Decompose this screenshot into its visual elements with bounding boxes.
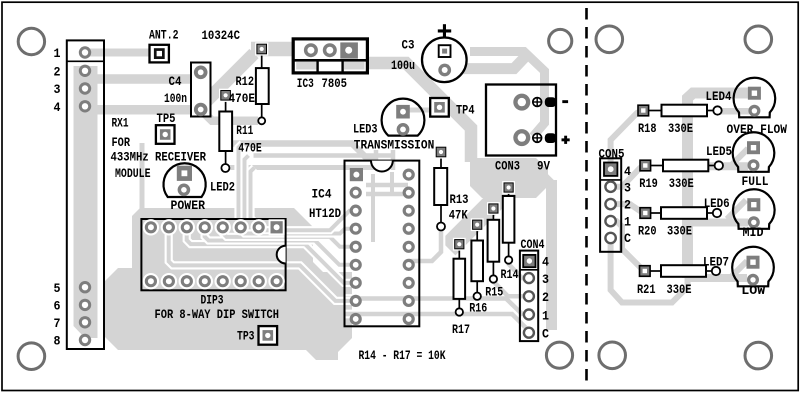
wire: CON5 common to trunk — [611, 238, 688, 303]
label 330E R21 — [667, 282, 692, 297]
label R15 — [485, 284, 503, 299]
svg-text:C4: C4 — [169, 74, 182, 89]
label R12 value 470E — [229, 91, 256, 106]
svg-text:4: 4 — [624, 164, 631, 179]
wire: LED5 anode stub — [730, 149, 748, 167]
label CON3 — [495, 158, 520, 173]
wire: trace left of DIP3 — [140, 143, 145, 280]
wire: LED6 anode stub — [727, 200, 746, 219]
label R21 — [637, 282, 656, 297]
label 10324C — [202, 28, 241, 43]
label CON4 — [521, 237, 545, 252]
CON3 minus mark — [562, 100, 568, 103]
label 100n — [164, 91, 187, 106]
label IC3 — [297, 76, 314, 91]
svg-text:DIP3: DIP3 — [201, 293, 224, 308]
wire: vertical bus inside CON1 — [74, 66, 98, 338]
IC3 7805 regulator — [293, 39, 367, 73]
wire: band link to pour — [538, 172, 553, 187]
svg-text:2: 2 — [624, 198, 631, 213]
wire: trunk to LED7 pad — [688, 274, 748, 282]
label R18 — [638, 121, 657, 136]
wire: vertical band right of CON4 — [546, 180, 557, 330]
wire: IC4 inner traces — [366, 172, 408, 242]
label FULL — [742, 174, 769, 189]
wire: trunk to LED6 pad — [688, 219, 749, 227]
resistor R17 — [453, 238, 466, 316]
resistor R21 — [640, 265, 721, 277]
CON3 plus mark — [562, 136, 570, 144]
svg-text:7805: 7805 — [322, 76, 348, 91]
svg-text:R16: R16 — [469, 300, 487, 315]
svg-text:C: C — [624, 231, 631, 246]
svg-text:POWER: POWER — [171, 198, 206, 213]
label C4 — [169, 74, 182, 89]
node CON4 pin labels — [542, 255, 549, 342]
label 330E R19 — [669, 176, 694, 191]
resistor R11 — [219, 89, 232, 172]
label LED4 — [706, 89, 732, 104]
svg-text:3: 3 — [54, 82, 61, 97]
resistor R19 — [640, 160, 723, 172]
svg-text:FULL: FULL — [742, 174, 769, 189]
svg-text:4: 4 — [542, 255, 549, 270]
label R20 — [638, 224, 657, 239]
svg-text:TP4: TP4 — [456, 103, 475, 118]
svg-text:100u: 100u — [391, 58, 415, 73]
svg-text:LED2: LED2 — [210, 180, 235, 195]
wire: R11 pad trace to IC4 — [225, 165, 376, 170]
label R13 — [450, 192, 469, 207]
wire: C3 pad link — [445, 56, 526, 69]
label TP3 — [237, 328, 255, 343]
svg-text:330E: 330E — [667, 282, 692, 297]
svg-text:MID: MID — [743, 225, 764, 240]
svg-text:330E: 330E — [668, 121, 693, 136]
resistor R15 — [487, 202, 500, 283]
label MID — [743, 225, 764, 240]
LED D2 (power) — [163, 163, 205, 197]
DIP3 socket for DIP switch — [141, 219, 285, 290]
wire: pin4 trace to C4 bottom pad — [85, 106, 199, 109]
wire: trace to CON4 pin4 — [524, 259, 536, 264]
label RX1 — [112, 116, 129, 131]
svg-text:TRANSMISSION: TRANSMISSION — [354, 138, 435, 153]
label HT12D — [309, 206, 341, 221]
resistor R12 — [255, 42, 269, 124]
svg-text:R17: R17 — [452, 322, 470, 337]
label OVER FLOW — [727, 122, 788, 137]
wire: LED common trunk — [688, 93, 750, 278]
wire: LED7 anode stub — [730, 261, 747, 278]
svg-text:LED5: LED5 — [706, 144, 732, 159]
wire: IC4 notch vertical 2 — [391, 150, 396, 170]
svg-text:10324C: 10324C — [202, 28, 241, 43]
capacitor C4 — [191, 63, 211, 117]
svg-text:7: 7 — [54, 316, 61, 331]
wire: C4 to R12 bottom pad — [201, 110, 258, 121]
svg-text:R13: R13 — [450, 192, 469, 207]
svg-text:IC3: IC3 — [297, 76, 314, 91]
svg-text:IC4: IC4 — [312, 187, 332, 202]
svg-text:OVER FLOW: OVER FLOW — [727, 122, 788, 137]
svg-text:4: 4 — [54, 100, 61, 115]
label R16 — [469, 300, 487, 315]
LED5 — [733, 132, 775, 172]
connector CON4 — [520, 251, 538, 342]
connector CON3 9V battery — [486, 85, 556, 156]
connector CON5 — [600, 158, 621, 252]
svg-text:LOW: LOW — [741, 283, 765, 298]
C3 polarity plus mark — [438, 24, 451, 37]
label R12 — [236, 74, 255, 89]
label IC4 — [312, 187, 332, 202]
wire: LED3 to TP4 link — [404, 108, 430, 113]
svg-text:LED7: LED7 — [703, 255, 729, 270]
wire: wide feed to resistor bank — [448, 186, 510, 248]
svg-text:470E: 470E — [229, 91, 256, 106]
label 100u — [391, 58, 415, 73]
wire: upper bundle trace 2 — [254, 153, 394, 158]
svg-text:100n: 100n — [164, 91, 187, 106]
svg-text:LED6: LED6 — [704, 196, 730, 211]
svg-text:R14 - R17 = 10K: R14 - R17 = 10K — [359, 348, 446, 363]
board separator dashed line — [585, 8, 588, 386]
label TP4 — [456, 103, 475, 118]
svg-text:2: 2 — [542, 290, 549, 305]
resistor R13 — [434, 145, 447, 230]
svg-text:470E: 470E — [238, 140, 262, 155]
test point TP5 — [156, 125, 175, 144]
wire: pin1 trace to ANT.2 — [85, 49, 159, 57]
svg-text:R19: R19 — [639, 176, 658, 191]
svg-text:3: 3 — [624, 181, 631, 196]
connector CON1 8-pin receiver header — [67, 40, 104, 349]
label R13 value 47K — [449, 208, 468, 223]
svg-text:R21: R21 — [637, 282, 656, 297]
label LED3 — [353, 121, 378, 136]
LED4 — [734, 78, 776, 118]
svg-text:R11: R11 — [236, 123, 253, 138]
wire: pin2 trace to C4 top pad — [85, 71, 195, 79]
svg-text:R12: R12 — [236, 74, 255, 89]
wire: riser trace 3 — [251, 168, 255, 220]
wire: big ground pour bottom-left — [104, 208, 352, 360]
test point TP3 — [259, 326, 278, 345]
wire: R13 bottom trace — [409, 227, 441, 261]
label DIP3 — [201, 293, 224, 308]
label R14 — [501, 267, 519, 282]
label LED2 — [210, 180, 235, 195]
svg-text:330E: 330E — [667, 224, 692, 239]
wire: CON5 pin1 to R21 — [611, 221, 645, 270]
svg-text:R15: R15 — [485, 284, 503, 299]
label R11 — [236, 123, 253, 138]
svg-text:RX1: RX1 — [112, 116, 129, 131]
label FOR 8-WAY DIP SWITCH — [155, 307, 280, 322]
resistor R14 — [502, 181, 515, 264]
wire: DIP3 to IC4 fan traces — [286, 211, 356, 301]
wire: CON5 pin4 to R18 — [611, 111, 642, 167]
label R14 - R17 = 10K — [359, 348, 446, 363]
wire: CON5 pin3 to R19 — [611, 166, 646, 187]
label LOW — [741, 283, 765, 298]
label POWER — [171, 198, 206, 213]
svg-text:HT12D: HT12D — [309, 206, 341, 221]
label LED6 — [704, 196, 730, 211]
svg-text:330E: 330E — [669, 176, 694, 191]
svg-text:FOR 8-WAY DIP SWITCH: FOR 8-WAY DIP SWITCH — [155, 307, 280, 322]
wire: R14 pad to CON4 pin3 — [509, 260, 529, 278]
wire: R15 pad to CON4 pin2 — [493, 281, 529, 296]
capacitor C3 — [422, 38, 467, 83]
antenna pad ANT.2 — [150, 45, 169, 63]
label FOR — [112, 135, 131, 150]
wire: pour below CON3 — [470, 158, 548, 198]
svg-text:MODULE: MODULE — [115, 166, 151, 181]
label ANT.2 — [149, 28, 179, 43]
wire: IC4 notch vertical 1 — [374, 150, 379, 170]
wire: R18 to LED4 pad — [718, 108, 750, 115]
label MODULE — [115, 166, 151, 181]
label 330E R20 — [667, 224, 692, 239]
wire: DIP3 inner nest traces — [169, 226, 286, 265]
svg-text:R18: R18 — [638, 121, 657, 136]
node CON5 pin labels — [624, 164, 631, 246]
wire: upper bundle trace 1 — [233, 144, 377, 158]
svg-text:C: C — [542, 327, 549, 342]
node CON1 pin numbers 1-8 — [54, 46, 61, 349]
IC4 HT12D decoder socket — [345, 161, 420, 327]
svg-text:LED4: LED4 — [706, 89, 732, 104]
label TRANSMISSION — [354, 138, 435, 153]
svg-text:CON3: CON3 — [495, 158, 520, 173]
svg-text:C3: C3 — [402, 37, 415, 52]
resistor R16 — [471, 218, 484, 300]
wire: stripe to CON4 pin1 — [345, 299, 529, 315]
wire: riser trace 2 — [245, 156, 249, 220]
label TP5 — [157, 111, 176, 126]
svg-text:CON5: CON5 — [599, 146, 625, 161]
label LED7 — [703, 255, 729, 270]
label CON5 — [599, 146, 625, 161]
label C3 — [402, 37, 415, 52]
svg-text:9V: 9V — [537, 158, 550, 173]
label R17 — [452, 322, 470, 337]
svg-text:47K: 47K — [449, 208, 468, 223]
svg-text:1: 1 — [542, 308, 549, 323]
svg-text:FOR: FOR — [112, 135, 131, 150]
label LED5 — [706, 144, 732, 159]
label R18 value 330E — [668, 121, 693, 136]
label R11 value 470E — [238, 140, 262, 155]
wire: riser trace 1 — [239, 144, 243, 220]
svg-text:LED3: LED3 — [353, 121, 378, 136]
wire: stripe to CON4 pinC — [345, 314, 529, 331]
svg-text:5: 5 — [54, 281, 61, 296]
svg-text:ANT.2: ANT.2 — [149, 28, 179, 43]
svg-text:2: 2 — [54, 64, 61, 79]
resistor R18 — [638, 105, 722, 117]
wire: diagonal C4 to R12 top pad — [200, 54, 255, 109]
wire: trunk to LED5 pad — [688, 162, 749, 170]
svg-text:TP5: TP5 — [157, 111, 176, 126]
resistor R20 — [640, 207, 721, 219]
svg-text:CON4: CON4 — [521, 237, 545, 252]
svg-text:R20: R20 — [638, 224, 657, 239]
LED D3 (transmission) — [382, 99, 425, 136]
wire: R12 pad to IC3 — [251, 42, 294, 57]
svg-text:TP3: TP3 — [237, 328, 255, 343]
svg-text:8: 8 — [54, 334, 61, 349]
wire: 9V band C3 to CON3 — [470, 52, 545, 137]
svg-text:1: 1 — [54, 46, 61, 61]
svg-text:1: 1 — [624, 214, 631, 229]
svg-text:3: 3 — [542, 272, 549, 287]
svg-text:R14: R14 — [501, 267, 519, 282]
label R19 — [639, 176, 658, 191]
wire: band right of IC3 to pour — [344, 63, 471, 162]
svg-text:6: 6 — [54, 299, 61, 314]
LED7 — [732, 247, 774, 287]
label 9V — [537, 158, 550, 173]
label 7805 — [322, 76, 348, 91]
label 433MHz RECEIVER — [111, 150, 207, 165]
test point TP4 — [430, 98, 449, 117]
LED6 — [733, 189, 775, 229]
svg-text:433MHz RECEIVER: 433MHz RECEIVER — [111, 150, 207, 165]
wire: CON5 pin2 to R20 — [611, 204, 646, 212]
